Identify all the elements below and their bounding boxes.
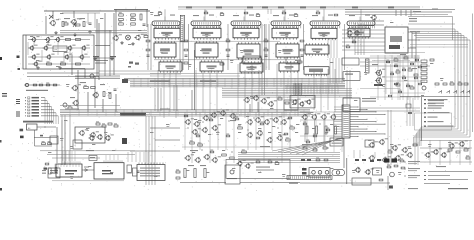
svg-text:x: x xyxy=(126,20,127,22)
svg-text:x: x xyxy=(126,24,127,26)
svg-text:x: x xyxy=(126,15,127,17)
